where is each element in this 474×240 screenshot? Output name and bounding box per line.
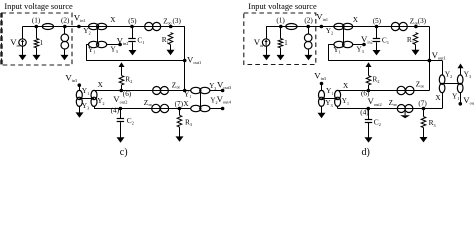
svg-text:Input voltage source: Input voltage source bbox=[4, 2, 73, 11]
svg-text:(3): (3) bbox=[418, 17, 427, 25]
ground: under C2 (d) bbox=[365, 137, 373, 142]
wire: riser to junction (d) bbox=[429, 27, 431, 91]
svg-text:(3): (3) bbox=[173, 17, 182, 25]
node V_in2 (d) bbox=[362, 43, 366, 47]
source V_in (c) bbox=[19, 39, 26, 46]
wire: (5) to C1 (c) bbox=[132, 27, 134, 39]
svg-text:c): c) bbox=[120, 147, 128, 158]
source V_in (d) bbox=[262, 39, 269, 46]
wire: bottom pair to Vout4 (c) bbox=[210, 108, 223, 110]
wire: row1 node6 to Zinf (c) bbox=[121, 90, 191, 92]
svg-text:(4): (4) bbox=[360, 108, 369, 116]
box: input voltage source (d) bbox=[244, 13, 316, 65]
capacitor C1 (d) bbox=[373, 39, 380, 42]
wire: node7 to R3 (c) bbox=[179, 109, 181, 116]
svg-text:1: 1 bbox=[40, 40, 43, 47]
resistor R3 (d) bbox=[421, 117, 426, 128]
mirror vpair right-left (d) bbox=[439, 75, 445, 93]
wire: vpairR bottom stub (c) bbox=[94, 106, 96, 109]
wire: pair1-pair2 connector (d) bbox=[343, 27, 345, 45]
wire: Vin to ground (d) bbox=[266, 46, 268, 52]
node (1) (c) bbox=[35, 25, 39, 29]
wire: X row to node6 (d) bbox=[338, 90, 369, 92]
ground: under R3 (d) bbox=[420, 137, 428, 142]
wire: elbow (3) to riser (c) bbox=[171, 26, 185, 28]
mirror vpair right-right (d) bbox=[457, 75, 463, 93]
wire: pair2 left stub (c) bbox=[86, 44, 89, 46]
wire: feedback drop (d) bbox=[328, 45, 330, 61]
nullator between (1)(2) (d) bbox=[286, 24, 297, 30]
wire: R2 to node6 (d) bbox=[368, 85, 370, 91]
svg-text:(1): (1) bbox=[32, 16, 41, 24]
mirror pair right top (c) bbox=[191, 87, 210, 93]
node (2) (d) bbox=[306, 25, 310, 29]
mirror vpair Y1-Y3 lower (c) bbox=[76, 90, 82, 106]
resistor R1 (c) bbox=[168, 33, 173, 45]
ground: under Vin (d) bbox=[263, 52, 271, 61]
svg-text:X: X bbox=[353, 16, 359, 24]
node V_out4 (d) bbox=[459, 102, 463, 106]
resistor 1 (d) bbox=[278, 39, 283, 48]
wire: row1 to riser (d) bbox=[414, 90, 429, 92]
node V_out1 (c) bbox=[183, 59, 187, 63]
wire: vpairR top elbow (d) bbox=[337, 90, 339, 92]
wire: top pair to Vout3 (c) bbox=[210, 90, 223, 92]
svg-text:(7): (7) bbox=[175, 100, 184, 108]
wire: Vin to rail (c) bbox=[22, 27, 24, 40]
mirror pair Y1-Y3 (d) bbox=[334, 41, 353, 47]
mirror pair Y2-X (c) bbox=[89, 23, 107, 29]
svg-text:(6): (6) bbox=[123, 90, 132, 98]
svg-text:X: X bbox=[110, 16, 116, 24]
capacitor C1 (c) bbox=[128, 39, 135, 42]
node (6) (d) bbox=[367, 89, 371, 93]
ground: under resistor 1 (d) bbox=[277, 52, 285, 61]
wire: pair2 left stub (d) bbox=[328, 44, 334, 46]
resistor R1 (d) bbox=[413, 33, 418, 45]
ground: under resistor 1 (c) bbox=[33, 52, 41, 61]
node V_out3 (c) bbox=[221, 89, 225, 93]
ground: under R1 (d) bbox=[412, 50, 420, 55]
svg-text:Input voltage source: Input voltage source bbox=[248, 2, 317, 11]
mirror pair Y1-Y3 (c) bbox=[89, 41, 107, 47]
node (7) (d) bbox=[422, 107, 426, 111]
resistor R2 (d) bbox=[366, 76, 371, 85]
wire: Vin3 stub (d) bbox=[321, 84, 323, 91]
wire: Vout2 to C2 (c) bbox=[120, 109, 122, 119]
wire: right pairs connector (d) bbox=[442, 83, 460, 85]
wire: feedback drop (c) bbox=[86, 45, 88, 61]
ground: under C1 (c) bbox=[129, 50, 137, 55]
wire: R3 to ground (d) bbox=[423, 128, 425, 138]
wire: vpairL bottom elbow (d) bbox=[442, 93, 444, 109]
node V_out1 (d) bbox=[428, 59, 432, 63]
wire: row2 rail (d) bbox=[338, 108, 424, 110]
ground: under R1 (c) bbox=[167, 50, 175, 55]
node (5) (c) bbox=[130, 25, 134, 29]
node V_out1b (d) bbox=[428, 59, 432, 63]
node (5) (d) bbox=[375, 25, 379, 29]
svg-text:1: 1 bbox=[284, 40, 287, 47]
mirror vpair X-Y2 lower (c) bbox=[91, 90, 97, 106]
arrow: R2 to Vout1 (c) bbox=[119, 62, 125, 75]
wire: C2 to ground (d) bbox=[368, 123, 370, 139]
mirror pair right bottom (c) bbox=[191, 105, 210, 111]
wire: Vout1 to vpair elbow (d) bbox=[429, 60, 442, 62]
node V_out2 (d) bbox=[367, 107, 371, 111]
wire: Vin3 stub (c) bbox=[79, 85, 81, 91]
node (2) (c) bbox=[63, 25, 67, 29]
wire: Vout1 rail (d) bbox=[328, 60, 429, 62]
ground: under vpairL (c) bbox=[76, 112, 84, 117]
norator Z-inf row2 (c) bbox=[152, 104, 169, 112]
capacitor C2 (d) bbox=[365, 120, 372, 123]
resistor 1 (c) bbox=[34, 39, 39, 48]
mirror vpair X-Y2 lower (d) bbox=[335, 90, 341, 106]
arrow: R2 to Vout1 (d) bbox=[366, 62, 372, 75]
wire: elbow (3) to riser (d) bbox=[416, 26, 430, 28]
node V_in2 (c) bbox=[118, 43, 122, 47]
wire: vpairL to ground (d) bbox=[321, 106, 323, 114]
ground: under C1 (d) bbox=[373, 50, 381, 55]
node V_in3 (c) bbox=[78, 83, 82, 87]
wire: (2) to norator (c) bbox=[64, 27, 66, 35]
svg-text:(2): (2) bbox=[304, 16, 313, 24]
svg-text:(2): (2) bbox=[61, 16, 70, 24]
norator Z-inf top (d) bbox=[391, 22, 407, 30]
wire: pair1-pair2 connector (c) bbox=[97, 27, 99, 45]
svg-text:X: X bbox=[98, 81, 104, 89]
wire: Vout1 rail (c) bbox=[86, 60, 185, 62]
wire: (5) to C1 (d) bbox=[376, 27, 378, 39]
wire: X row to node6 (c) bbox=[94, 90, 121, 92]
node (1) (d) bbox=[279, 25, 283, 29]
arrow: vpair to Vout1 (d) bbox=[458, 64, 464, 75]
ground: under row2 norator (d) bbox=[400, 112, 410, 119]
wire: R1 to ground (c) bbox=[170, 45, 172, 51]
norator Z-inf row1 (d) bbox=[397, 86, 414, 94]
wire: main top rail (c) bbox=[23, 26, 185, 28]
svg-text:d): d) bbox=[362, 147, 370, 158]
wire: resistor1 to ground (d) bbox=[280, 48, 282, 52]
svg-text:(4): (4) bbox=[111, 106, 120, 114]
wire: resistor1 to ground (c) bbox=[36, 48, 38, 52]
wire: vpairR to Vout4 (d) bbox=[460, 93, 462, 104]
ground: under R3 (c) bbox=[176, 136, 184, 141]
ground: under C2 (c) bbox=[117, 137, 125, 142]
wire: vpair connector (c) bbox=[79, 98, 94, 100]
capacitor C2 (c) bbox=[117, 119, 124, 122]
norator Z-inf row2 (d) bbox=[397, 105, 413, 113]
mirror pair Y2-X (d) bbox=[334, 23, 353, 29]
norator Z-inf top (c) bbox=[145, 22, 161, 30]
wire: node7 to R3 (d) bbox=[423, 109, 425, 117]
wire: right pairs connector (c) bbox=[200, 91, 202, 109]
node junction Y1 (c) bbox=[183, 89, 187, 93]
node (6) (c) bbox=[120, 89, 124, 93]
wire: node1 to resistor (c) bbox=[36, 27, 38, 39]
wire: norator to ground (d) bbox=[308, 49, 310, 56]
wire: vpairR top elbow (c) bbox=[94, 90, 96, 92]
wire: R3 to ground (c) bbox=[179, 127, 181, 137]
wire: Vout2 to C2 (d) bbox=[368, 109, 370, 120]
svg-text:(7): (7) bbox=[418, 99, 427, 107]
wire: main top rail (d) bbox=[266, 26, 429, 28]
resistor R3 (c) bbox=[177, 115, 182, 127]
node V_out2 (c) bbox=[119, 107, 123, 111]
svg-text:(5): (5) bbox=[373, 17, 382, 25]
nullator between (1)(2) (c) bbox=[42, 24, 53, 30]
wire: R2 to node6 (c) bbox=[121, 85, 123, 91]
wire: norator to ground (c) bbox=[64, 49, 66, 56]
wire: C2 to ground (c) bbox=[120, 122, 122, 138]
node V_out4 (c) bbox=[221, 107, 225, 111]
ground: under norator (c) bbox=[61, 55, 69, 60]
norator under (2) (d) bbox=[304, 34, 312, 49]
node (3) (d) bbox=[414, 25, 418, 29]
wire: Vin to ground (c) bbox=[22, 46, 24, 52]
ground: under Vin (c) bbox=[19, 52, 27, 61]
node (3) (c) bbox=[169, 25, 173, 29]
node V_in1 (c) bbox=[77, 25, 81, 29]
svg-text:X: X bbox=[343, 82, 349, 90]
wire: C1 to ground (c) bbox=[132, 42, 134, 51]
wire: R1 to ground (d) bbox=[415, 45, 417, 51]
svg-text:X: X bbox=[183, 100, 189, 108]
wire: pair2 to Vin2 (c) bbox=[107, 44, 121, 46]
wire: node1 to resistor (d) bbox=[280, 27, 282, 39]
wire: Vin to rail (d) bbox=[266, 27, 268, 40]
wire: C1 to ground (d) bbox=[376, 42, 378, 51]
wire: (2) to norator (d) bbox=[308, 27, 310, 35]
wire: row2 rail (c) bbox=[94, 108, 191, 110]
node V_in3 (d) bbox=[320, 82, 324, 86]
wire: riser to junction (c) bbox=[184, 27, 186, 91]
ground: under norator (d) bbox=[305, 55, 313, 60]
norator Z-inf row1 (c) bbox=[153, 87, 169, 95]
wire: vpairL to ground (c) bbox=[79, 106, 81, 114]
ground: under vpairL (d) bbox=[318, 113, 326, 118]
box: input voltage source (c) bbox=[2, 13, 73, 65]
node (7) (c) bbox=[178, 107, 182, 111]
node V_in1 (d) bbox=[320, 25, 324, 29]
norator under (2) (c) bbox=[61, 34, 69, 49]
svg-text:X: X bbox=[435, 94, 441, 102]
svg-text:(1): (1) bbox=[276, 16, 285, 24]
mirror vpair Y1-Y3 lower (d) bbox=[319, 90, 325, 106]
wire: pair2 to Vin2 (d) bbox=[353, 44, 365, 46]
wire: row1 node6 to Zinf (d) bbox=[368, 90, 429, 92]
svg-text:(5): (5) bbox=[128, 17, 137, 25]
wire: vpairR bottom stub (d) bbox=[337, 106, 339, 109]
wire: vpair connector (d) bbox=[322, 98, 338, 100]
resistor R2 (c) bbox=[119, 76, 124, 85]
